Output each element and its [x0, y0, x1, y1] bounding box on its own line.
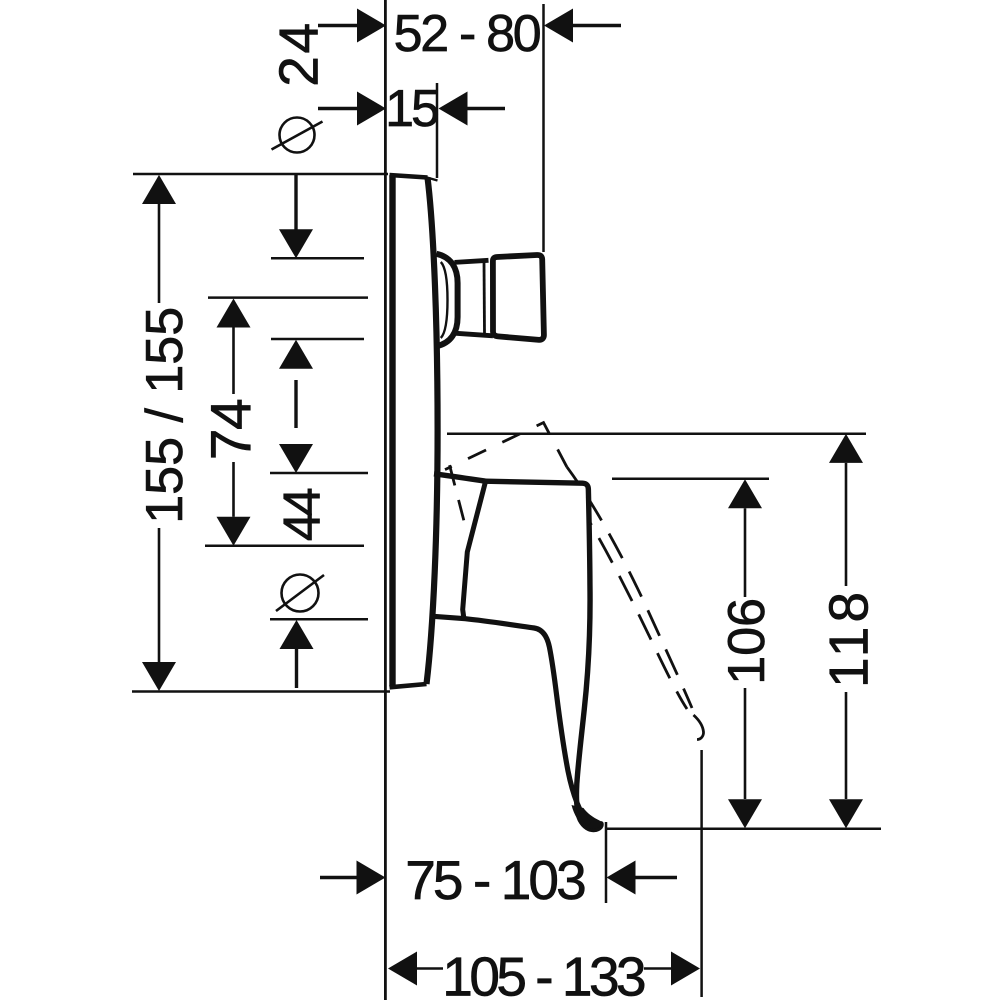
diameter symbol bottom [276, 575, 324, 612]
dimension 105-133 [388, 952, 700, 986]
svg-text:52 - 80: 52 - 80 [394, 5, 540, 63]
dimension dia24 [279, 175, 313, 428]
handle lever dashed (raised position) [445, 423, 704, 740]
dimension 15 [318, 92, 505, 126]
extension line knob bottom [271, 338, 364, 341]
knob flange [437, 254, 458, 346]
svg-text:15: 15 [385, 80, 438, 138]
knob stem [455, 260, 494, 336]
svg-text:24: 24 [267, 20, 329, 87]
wall line [384, 0, 387, 1000]
dimension 75-103 [320, 861, 677, 895]
svg-text:74: 74 [200, 399, 264, 460]
extension line knob top [271, 257, 364, 260]
dimension 118 [829, 434, 863, 828]
extension line sleeve top [270, 472, 368, 475]
reference line handle top [612, 478, 769, 481]
extension line handle axis [205, 545, 364, 548]
extension line raised handle tip [700, 750, 703, 997]
svg-text:105 - 133: 105 - 133 [442, 946, 645, 1000]
extension line plate bottom [132, 690, 390, 693]
dimension 52-80 [318, 9, 621, 43]
svg-text:75 - 103: 75 - 103 [405, 849, 585, 911]
extension line handle tip [605, 822, 608, 903]
extension line plate top [133, 173, 388, 176]
dimension 106 [728, 479, 762, 828]
dimension 74 [217, 299, 251, 546]
escutcheon plate [390, 175, 438, 687]
reference line handle raised top [447, 432, 866, 435]
dimension 155/155 [142, 175, 176, 691]
extension line plate face [436, 83, 439, 178]
handle lever solid [433, 474, 601, 830]
svg-text:44: 44 [274, 488, 332, 541]
knob head [493, 255, 544, 340]
extension line sleeve bottom [270, 618, 368, 621]
svg-text:106: 106 [718, 598, 776, 685]
extension line knob face [542, 4, 545, 252]
extension line knob axis [208, 296, 368, 299]
dimension dia44 [279, 444, 314, 688]
svg-text:118: 118 [817, 588, 879, 688]
svg-text:155 / 155: 155 / 155 [136, 307, 194, 524]
diameter symbol top [272, 118, 323, 153]
reference line handle tip bottom [607, 827, 881, 830]
